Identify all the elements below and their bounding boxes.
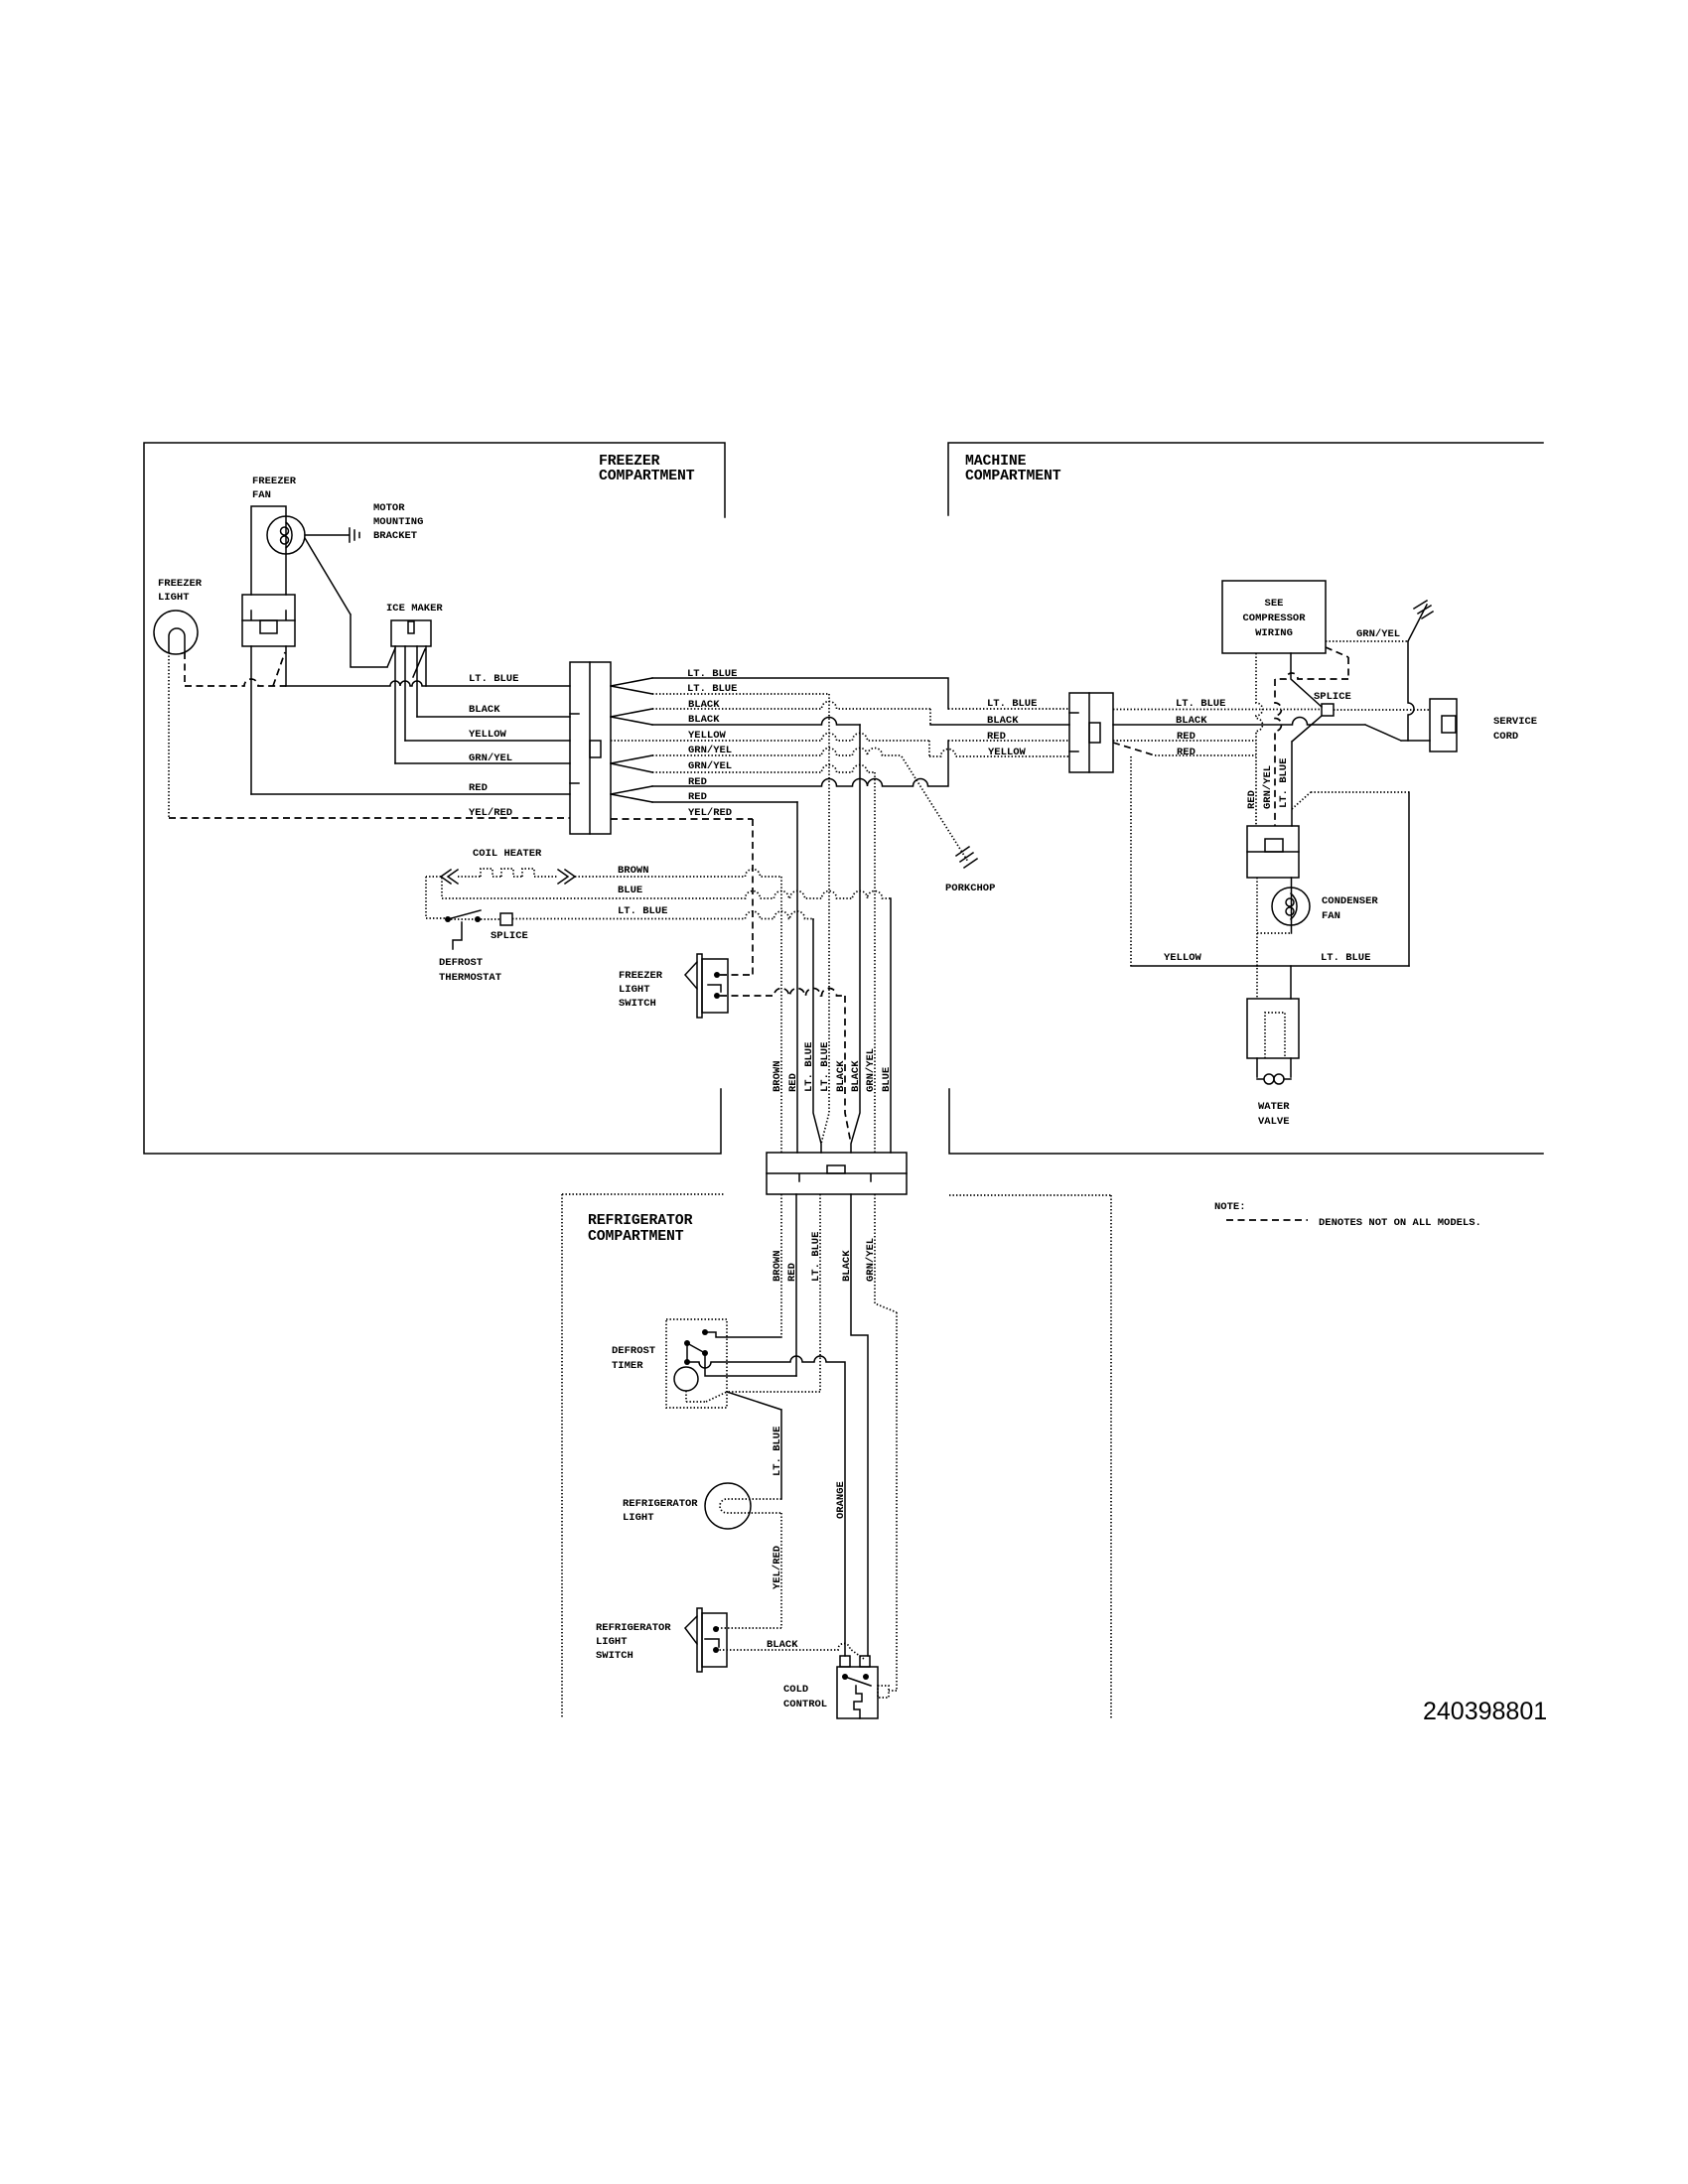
svg-text:GRN/YEL: GRN/YEL xyxy=(688,760,732,772)
freezer fan xyxy=(242,476,305,646)
wire freezer fan left lead (RED) xyxy=(250,646,252,794)
svg-text:WIRING: WIRING xyxy=(1255,627,1293,639)
svg-text:GRN/YEL: GRN/YEL xyxy=(865,1238,877,1282)
wire GRN/YEL row 2 xyxy=(652,760,875,772)
wire condenser fan return (dotted) xyxy=(1257,878,1291,999)
wire YELLOW bottom row xyxy=(1131,952,1257,966)
svg-text:SEE: SEE xyxy=(1265,598,1284,610)
svg-text:LT. BLUE: LT. BLUE xyxy=(469,673,518,685)
wire GRN/YEL row 1 xyxy=(652,745,902,756)
chassis ground hatch xyxy=(1414,601,1433,618)
wire BROWN to defrost timer xyxy=(780,1194,782,1337)
svg-text:VALVE: VALVE xyxy=(1258,1116,1290,1128)
svg-text:GRN/YEL: GRN/YEL xyxy=(1356,628,1400,640)
wire LT. BLUE neutral branch to water valve xyxy=(1292,792,1409,809)
svg-text:BLACK: BLACK xyxy=(688,714,720,726)
svg-text:DEFROST: DEFROST xyxy=(439,957,483,969)
svg-text:LT. BLUE: LT. BLUE xyxy=(819,1042,831,1092)
svg-text:FREEZER: FREEZER xyxy=(252,476,297,487)
wire LT. BLUE bottom row xyxy=(1257,952,1409,966)
wire YELLOW row xyxy=(611,730,1069,756)
machine compartment border xyxy=(948,443,1543,1154)
svg-text:COMPRESSOR: COMPRESSOR xyxy=(1242,613,1306,624)
svg-text:240398801: 240398801 xyxy=(1423,1698,1547,1725)
wire heater left loop xyxy=(426,877,442,918)
machine compartment connector xyxy=(1069,693,1113,772)
wire motor bracket ground lead xyxy=(305,538,395,667)
wire RED pair fork xyxy=(611,786,652,802)
vertical wire labels (machine) xyxy=(1246,758,1290,809)
freezer compartment border xyxy=(144,443,725,1154)
svg-text:REFRIGERATOR: REFRIGERATOR xyxy=(596,1622,671,1634)
svg-text:LIGHT: LIGHT xyxy=(596,1636,628,1648)
svg-text:RED: RED xyxy=(469,782,488,794)
svg-text:FREEZER: FREEZER xyxy=(599,454,660,470)
wire LT. BLUE row 2 xyxy=(652,683,829,695)
refrigerator light xyxy=(623,1483,781,1529)
wire BLACK row to service cord xyxy=(1113,715,1430,741)
svg-text:LT. BLUE: LT. BLUE xyxy=(1321,952,1370,964)
coil heater xyxy=(441,848,575,884)
wire LT. BLUE row to splice xyxy=(1113,698,1322,710)
svg-text:RED: RED xyxy=(1246,790,1258,809)
svg-text:LT. BLUE: LT. BLUE xyxy=(987,698,1037,710)
wire BLACK to cold control xyxy=(851,1194,868,1656)
wire RED to defrost timer xyxy=(795,1194,797,1376)
svg-text:MOUNTING: MOUNTING xyxy=(373,516,423,528)
wire GRN/YEL pair fork xyxy=(611,755,652,772)
svg-text:DENOTES NOT ON ALL MODELS.: DENOTES NOT ON ALL MODELS. xyxy=(1319,1217,1481,1229)
splice (defrost circuit) xyxy=(491,913,528,942)
svg-text:YELLOW: YELLOW xyxy=(688,730,727,742)
svg-text:LT. BLUE: LT. BLUE xyxy=(1176,698,1225,710)
wire GRN/YEL to cold control xyxy=(875,1194,897,1691)
svg-text:THERMOSTAT: THERMOSTAT xyxy=(439,972,501,984)
wire BLACK bundle vertical xyxy=(851,725,860,1153)
svg-text:REFRIGERATOR: REFRIGERATOR xyxy=(623,1498,698,1510)
svg-text:WATER: WATER xyxy=(1258,1101,1290,1113)
wire RED row left xyxy=(251,782,570,794)
svg-text:BLACK: BLACK xyxy=(850,1060,862,1092)
service cord xyxy=(1430,699,1537,751)
svg-text:CONTROL: CONTROL xyxy=(783,1699,827,1710)
refrigerator compartment connector xyxy=(767,1153,907,1194)
wire BLACK pair fork xyxy=(611,709,652,725)
wire BROWN heater row xyxy=(575,865,781,1153)
svg-text:BRACKET: BRACKET xyxy=(373,530,417,542)
bundle labels below connector xyxy=(772,1232,877,1282)
svg-text:YELLOW: YELLOW xyxy=(988,747,1027,758)
svg-text:YEL/RED: YEL/RED xyxy=(772,1546,783,1589)
svg-text:DEFROST: DEFROST xyxy=(612,1345,655,1357)
wire freezer light dashed lead xyxy=(168,652,170,817)
svg-text:GRN/YEL: GRN/YEL xyxy=(469,752,512,764)
freezer compartment connector xyxy=(570,662,611,834)
svg-text:RED: RED xyxy=(688,791,707,803)
svg-text:SPLICE: SPLICE xyxy=(491,930,528,942)
svg-text:MOTOR: MOTOR xyxy=(373,502,405,514)
svg-text:COMPARTMENT: COMPARTMENT xyxy=(965,469,1061,484)
wire BLACK row left xyxy=(417,704,570,717)
svg-text:GRN/YEL: GRN/YEL xyxy=(1262,765,1274,809)
wire YEL/RED to switch (dashed) xyxy=(720,974,753,976)
svg-text:LT. BLUE: LT. BLUE xyxy=(618,905,667,917)
svg-text:FAN: FAN xyxy=(252,489,271,501)
svg-text:RED: RED xyxy=(1177,747,1196,758)
wire LT. BLUE defrost row xyxy=(426,905,821,1153)
svg-text:BLUE: BLUE xyxy=(881,1067,893,1092)
svg-text:REFRIGERATOR: REFRIGERATOR xyxy=(588,1213,693,1229)
svg-text:YELLOW: YELLOW xyxy=(469,729,507,741)
refrigerator compartment border xyxy=(562,1194,1111,1719)
freezer light switch xyxy=(619,954,728,1018)
defrost timer xyxy=(612,1319,796,1408)
svg-text:BROWN: BROWN xyxy=(772,1060,783,1092)
wire LT. BLUE pair fork xyxy=(611,678,652,694)
svg-text:LIGHT: LIGHT xyxy=(158,592,190,604)
svg-text:FAN: FAN xyxy=(1322,910,1340,922)
wire RED bundle vertical xyxy=(796,802,798,1153)
wire LT. BLUE splice to relay xyxy=(1292,716,1322,826)
svg-text:COMPARTMENT: COMPARTMENT xyxy=(599,469,695,484)
svg-text:BROWN: BROWN xyxy=(772,1250,783,1282)
wire BLACK switch to cold control xyxy=(716,1639,864,1659)
porkchop pointer xyxy=(902,756,995,894)
wire LT. BLUE row left xyxy=(286,673,570,686)
svg-text:RED: RED xyxy=(786,1263,798,1282)
svg-text:YEL/RED: YEL/RED xyxy=(688,807,732,819)
wire RED compressor drop xyxy=(1256,653,1263,826)
ice maker xyxy=(386,603,443,646)
motor mounting bracket xyxy=(305,502,423,542)
svg-text:SWITCH: SWITCH xyxy=(619,998,656,1010)
wire freezer fan right lead (LT. BLUE) xyxy=(285,646,287,686)
cold control xyxy=(783,1656,889,1718)
water valve xyxy=(1247,966,1299,1128)
svg-text:BLACK: BLACK xyxy=(835,1060,847,1092)
svg-text:RED: RED xyxy=(787,1073,799,1092)
svg-text:ICE MAKER: ICE MAKER xyxy=(386,603,443,614)
svg-text:LT. BLUE: LT. BLUE xyxy=(1278,758,1290,808)
svg-text:LT. BLUE: LT. BLUE xyxy=(810,1232,822,1282)
wire LT. BLUE timer to light xyxy=(727,1392,781,1499)
svg-text:TIMER: TIMER xyxy=(612,1360,643,1372)
svg-text:LT. BLUE: LT. BLUE xyxy=(803,1042,815,1092)
wire LT. BLUE splice to service cord xyxy=(1334,709,1430,711)
wire GRN/YEL service drop xyxy=(1408,641,1414,741)
wire ice maker pin 3 (BLACK) xyxy=(416,646,418,717)
wire YEL/RED row (dashed) xyxy=(611,807,753,975)
wire GRN/YEL compressor loop (dashed) xyxy=(1275,647,1348,826)
wire ice maker pin 1 (GRN/YEL) xyxy=(394,646,396,763)
wire ice maker pin 4 (LT. BLUE) xyxy=(413,646,426,686)
svg-text:SPLICE: SPLICE xyxy=(1314,691,1351,703)
wire GRN/YEL bundle vertical xyxy=(874,772,876,1153)
compressor wiring box xyxy=(1222,581,1326,653)
bundle labels xyxy=(772,1042,893,1092)
wire YEL/RED light to switch xyxy=(716,1513,781,1628)
svg-text:YELLOW: YELLOW xyxy=(1164,952,1202,964)
wire RED row 1 xyxy=(652,741,1069,788)
wire LT. BLUE bundle verticals merging xyxy=(812,918,814,920)
wire LT. BLUE compressor to splice xyxy=(1291,653,1322,707)
wire BLACK row 2 xyxy=(652,714,860,726)
svg-text:BLACK: BLACK xyxy=(469,704,500,716)
svg-text:NOTE:: NOTE: xyxy=(1214,1201,1246,1213)
wire YELLOW drop right of connector xyxy=(1130,756,1132,966)
svg-text:COIL HEATER: COIL HEATER xyxy=(473,848,542,860)
svg-text:GRN/YEL: GRN/YEL xyxy=(865,1048,877,1092)
svg-text:MACHINE: MACHINE xyxy=(965,454,1027,470)
condenser fan xyxy=(1272,878,1378,933)
defrost thermostat xyxy=(439,910,501,984)
wire LT. BLUE row 1 xyxy=(652,668,1069,709)
wire GRN/YEL row left xyxy=(395,752,570,764)
svg-text:BROWN: BROWN xyxy=(618,865,649,877)
note legend xyxy=(1214,1201,1481,1229)
wire LT. BLUE to defrost timer xyxy=(727,1194,820,1392)
svg-text:CONDENSER: CONDENSER xyxy=(1322,895,1378,907)
svg-text:CORD: CORD xyxy=(1493,731,1518,743)
wire RED row to compressor xyxy=(1113,731,1256,743)
svg-text:LIGHT: LIGHT xyxy=(619,984,650,996)
wire RED row 2 (dashed feed) xyxy=(1113,743,1256,758)
svg-text:FREEZER: FREEZER xyxy=(158,578,203,590)
svg-text:RED: RED xyxy=(987,731,1006,743)
svg-text:SERVICE: SERVICE xyxy=(1493,716,1537,728)
node labels left of machine connector xyxy=(987,698,1037,758)
wire BLACK switched (dashed) xyxy=(720,989,851,1145)
svg-text:BLUE: BLUE xyxy=(618,885,642,896)
svg-text:LIGHT: LIGHT xyxy=(623,1512,654,1524)
wire freezer light neutral (dashed) xyxy=(185,652,286,686)
svg-text:ORANGE: ORANGE xyxy=(835,1481,847,1519)
svg-text:COMPARTMENT: COMPARTMENT xyxy=(588,1229,684,1245)
compressor relay block xyxy=(1247,826,1299,878)
wire YELLOW row left xyxy=(405,729,570,741)
svg-text:SWITCH: SWITCH xyxy=(596,1650,633,1662)
svg-text:BLACK: BLACK xyxy=(987,715,1019,727)
svg-text:LT. BLUE: LT. BLUE xyxy=(772,1427,783,1476)
wire GRN/YEL to chassis ground xyxy=(1326,605,1427,641)
freezer light xyxy=(154,578,203,654)
wire ice maker pin 2 (YELLOW) xyxy=(404,646,406,741)
splice (service cord) xyxy=(1314,691,1351,716)
refrigerator light switch xyxy=(596,1608,727,1672)
wire ORANGE from timer xyxy=(687,1356,845,1656)
wire RED row 2 xyxy=(652,791,797,803)
svg-text:COLD: COLD xyxy=(783,1684,808,1696)
svg-text:FREEZER: FREEZER xyxy=(619,970,663,982)
wire YEL/RED row left (dashed) xyxy=(169,807,570,819)
svg-text:BLACK: BLACK xyxy=(841,1250,853,1282)
wire BLACK row 1 xyxy=(652,699,1069,725)
svg-text:PORKCHOP: PORKCHOP xyxy=(945,883,995,894)
wire BLUE heater row xyxy=(442,885,891,1153)
